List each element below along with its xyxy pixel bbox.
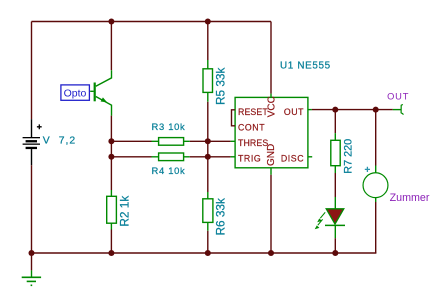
pin TRIG bbox=[238, 153, 261, 163]
wire VCC drop bbox=[270, 22, 272, 98]
battery label V 7,2 bbox=[43, 135, 76, 146]
connector OUT pad bbox=[401, 105, 403, 115]
wire Zummer to bottom rail bbox=[375, 198, 377, 253]
label R6 33k bbox=[214, 198, 228, 235]
buzzer Zummer bbox=[363, 167, 388, 198]
wire THRES row right segment bbox=[190, 140, 235, 142]
svg-text:VCC: VCC bbox=[266, 96, 277, 117]
svg-text:R3 10k: R3 10k bbox=[152, 121, 186, 132]
wire emitter down to THRES node bbox=[110, 116, 112, 190]
node bottom rail / R2 bbox=[108, 250, 114, 256]
wire R5 column top bbox=[207, 22, 209, 61]
wire OUT row bbox=[308, 109, 401, 111]
label OUT bbox=[387, 91, 409, 101]
node bottom rail / LED bbox=[332, 250, 338, 256]
label R2 1k bbox=[118, 196, 132, 227]
label Zummer bbox=[390, 192, 430, 204]
node emitter / R3 bbox=[108, 138, 114, 144]
node bottom rail / R6 bbox=[205, 250, 211, 256]
svg-text:TRIG: TRIG bbox=[238, 153, 261, 163]
ground bbox=[22, 277, 41, 285]
node OUT / R7 column bbox=[332, 107, 338, 113]
svg-text:R7 220: R7 220 bbox=[342, 139, 354, 174]
wire GND drop bbox=[270, 168, 272, 253]
svg-text:R6 33k: R6 33k bbox=[214, 198, 228, 235]
svg-text:DISC: DISC bbox=[281, 153, 304, 163]
svg-text:R4 10k: R4 10k bbox=[152, 165, 186, 176]
wire THRES row left segment bbox=[111, 140, 151, 142]
IC U1 NE555 body bbox=[235, 97, 308, 167]
wire R7 to LED bbox=[334, 173, 336, 197]
node bottom rail / GND pin bbox=[268, 250, 274, 256]
opto label box Opto bbox=[61, 85, 90, 100]
wire R2 to bottom rail bbox=[110, 230, 112, 254]
label U1 NE555 bbox=[280, 60, 331, 71]
svg-text:THRES: THRES bbox=[238, 138, 268, 148]
wire RESET-CONT bracket bbox=[232, 110, 236, 126]
wire Zummer drop bbox=[375, 110, 377, 173]
transistor Q1 opto bbox=[90, 70, 111, 116]
svg-text:U1 NE555: U1 NE555 bbox=[280, 60, 331, 71]
resistor R5 33k bbox=[203, 60, 213, 102]
svg-text:GND: GND bbox=[266, 144, 277, 166]
svg-text:Opto: Opto bbox=[64, 87, 87, 99]
wire left vertical from top rail to battery bbox=[31, 22, 33, 120]
svg-text:Zummer: Zummer bbox=[390, 192, 430, 204]
resistor R4 10k bbox=[152, 153, 190, 161]
pin DISC bbox=[281, 153, 304, 163]
pin THRES bbox=[238, 138, 268, 148]
wire top rail bbox=[32, 21, 272, 23]
wire TRIG row right segment bbox=[190, 156, 235, 158]
label R7 220 bbox=[342, 139, 354, 174]
pin OUT bbox=[284, 107, 304, 117]
pin stub DISC bbox=[308, 156, 312, 158]
svg-text:OUT: OUT bbox=[387, 91, 409, 101]
node top rail / transistor column bbox=[108, 19, 114, 25]
pin VCC bbox=[266, 96, 277, 117]
svg-text:RESET: RESET bbox=[238, 107, 268, 117]
pin GND bbox=[266, 144, 277, 166]
node OUT / Zummer column bbox=[373, 107, 379, 113]
wire bottom rail bbox=[32, 252, 377, 254]
resistor R3 10k bbox=[152, 138, 190, 146]
wire ground drop bbox=[31, 253, 33, 277]
resistor R7 220 bbox=[331, 133, 340, 173]
node R4 / R5R6 column bbox=[205, 154, 211, 160]
resistor R2 1k bbox=[107, 190, 117, 230]
label R3 10k bbox=[152, 121, 186, 132]
node emitter / R4 bbox=[108, 154, 114, 160]
svg-text:V: V bbox=[43, 135, 50, 146]
svg-text:R5 33k: R5 33k bbox=[214, 68, 228, 105]
wire R6 to bottom rail bbox=[207, 231, 209, 253]
battery V 7,2 bbox=[23, 119, 42, 165]
wire TRIG row left segment bbox=[111, 156, 151, 158]
LED D1 bbox=[315, 197, 345, 238]
wire R7 drop bbox=[334, 110, 336, 134]
wire battery to bottom rail bbox=[31, 165, 33, 253]
node R3 / R5R6 column bbox=[205, 138, 211, 144]
wire LED to bottom rail bbox=[334, 238, 336, 253]
label R5 33k bbox=[214, 68, 228, 105]
svg-text:CONT: CONT bbox=[238, 123, 265, 133]
wire R5 to nodes bbox=[207, 102, 209, 192]
label R4 10k bbox=[152, 165, 186, 176]
svg-text:R2 1k: R2 1k bbox=[118, 196, 132, 227]
node top rail / R5 column bbox=[205, 19, 211, 25]
node bottom rail / battery bbox=[29, 250, 35, 256]
pin CONT bbox=[238, 123, 265, 133]
pin RESET bbox=[238, 107, 268, 117]
svg-text:OUT: OUT bbox=[284, 107, 304, 117]
wire mid-left vertical (rail to collector) bbox=[110, 22, 112, 71]
resistor R6 33k bbox=[203, 192, 213, 231]
svg-text:7,2: 7,2 bbox=[59, 135, 76, 146]
